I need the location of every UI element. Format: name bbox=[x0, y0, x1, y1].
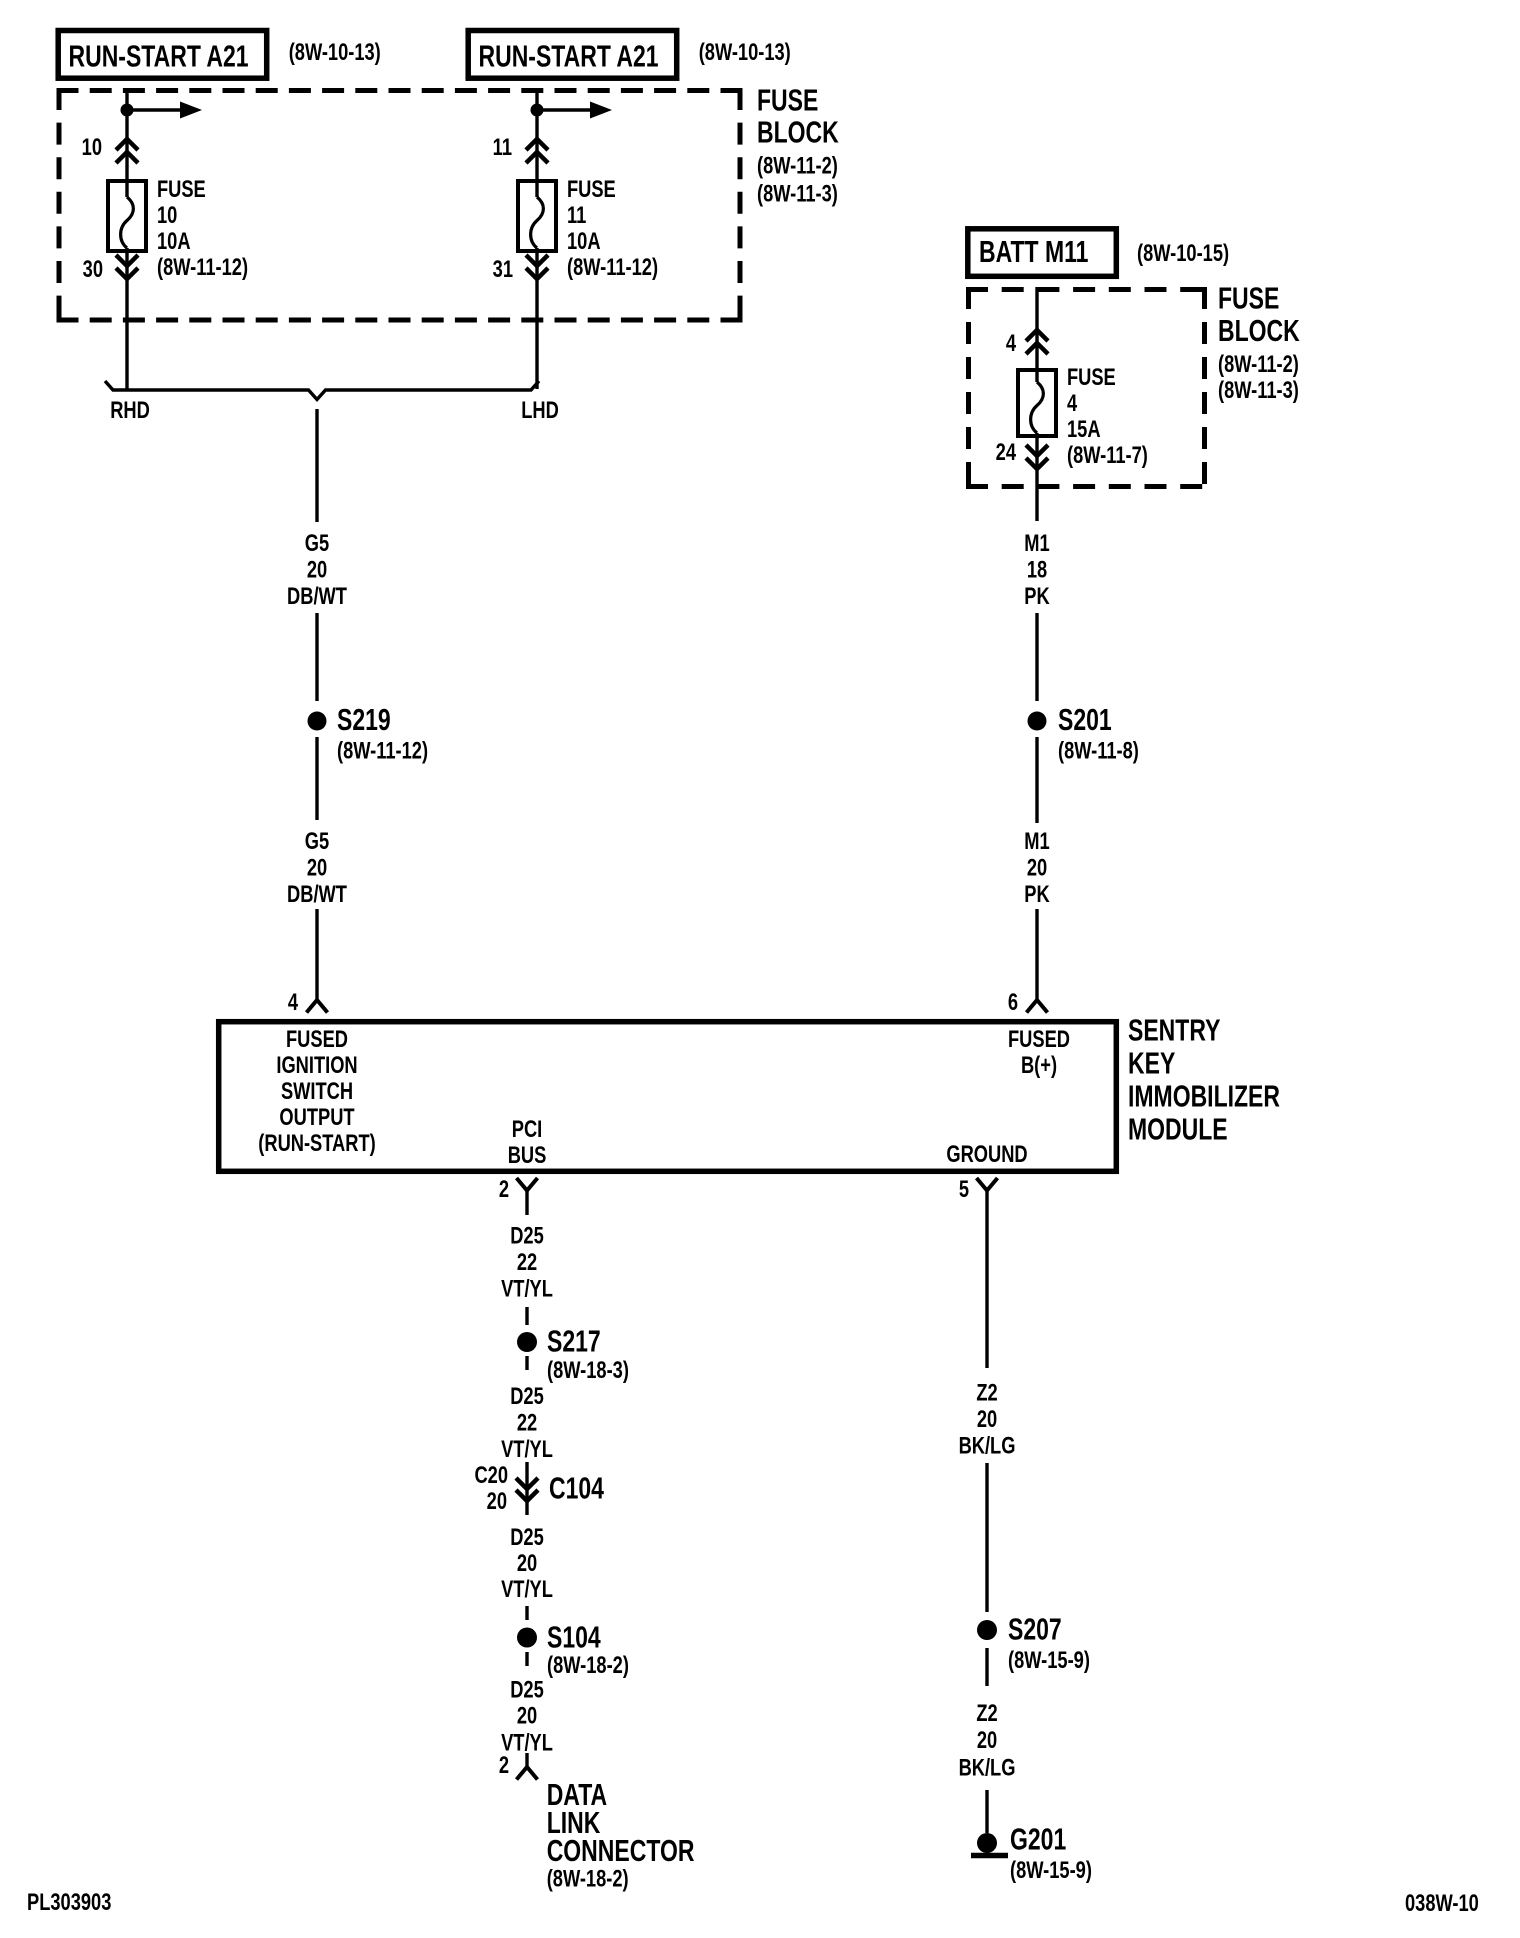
wire G5 below splice S219 bbox=[315, 737, 318, 820]
wire G5 to splice S219 bbox=[315, 613, 318, 701]
svg-text:OUTPUT: OUTPUT bbox=[279, 1104, 354, 1131]
pin 24 connector chevrons bbox=[1026, 445, 1048, 469]
wire fuse 11 output down to brace bbox=[535, 248, 538, 389]
svg-text:(8W-11-12): (8W-11-12) bbox=[157, 254, 248, 281]
svg-text:20: 20 bbox=[487, 1488, 507, 1515]
svg-text:M1: M1 bbox=[1024, 828, 1049, 855]
svg-text:FUSE: FUSE bbox=[757, 84, 818, 118]
wire label D25 20 VT/YL (4) bbox=[501, 1676, 553, 1756]
svg-text:VT/YL: VT/YL bbox=[501, 1275, 553, 1302]
svg-text:S207: S207 bbox=[1008, 1612, 1062, 1646]
connector C104 chevrons bbox=[516, 1462, 538, 1515]
svg-text:(8W-11-8): (8W-11-8) bbox=[1058, 737, 1139, 764]
svg-text:10A: 10A bbox=[567, 228, 601, 255]
svg-text:VT/YL: VT/YL bbox=[501, 1576, 553, 1603]
svg-text:038W-10: 038W-10 bbox=[1405, 1890, 1479, 1917]
label DATA LINK CONNECTOR bbox=[547, 1778, 695, 1868]
wire label Z2 20 BK/LG (2) bbox=[959, 1700, 1016, 1781]
wire from RUN-START A21 left into fuse block bbox=[125, 89, 128, 198]
svg-text:PK: PK bbox=[1024, 583, 1050, 610]
wire D25 to splice S104 bbox=[525, 1606, 528, 1620]
svg-text:30: 30 bbox=[83, 256, 103, 283]
svg-text:B(+): B(+) bbox=[1021, 1052, 1057, 1079]
svg-text:BATT M11: BATT M11 bbox=[979, 235, 1088, 269]
svg-text:BUS: BUS bbox=[508, 1142, 547, 1169]
svg-text:BLOCK: BLOCK bbox=[757, 116, 839, 150]
wire Z2 to ground G201 bbox=[985, 1790, 988, 1833]
wire label D25 20 VT/YL (3) bbox=[501, 1524, 553, 1603]
pin 2 fork out of module bbox=[517, 1178, 538, 1215]
wire label M1 18 PK bbox=[1024, 530, 1050, 610]
value label FUSE 11 10A (8W-11-12) bbox=[567, 176, 658, 281]
wire M1 below splice S201 bbox=[1035, 737, 1038, 823]
value label FUSE 4 15A (8W-11-7) bbox=[1067, 364, 1148, 469]
svg-text:S104: S104 bbox=[547, 1620, 601, 1654]
fuse block dashed enclosure (ignition) bbox=[57, 88, 743, 323]
svg-text:22: 22 bbox=[517, 1249, 537, 1276]
pin 30 connector chevrons bbox=[116, 255, 138, 279]
svg-text:10: 10 bbox=[82, 134, 102, 161]
svg-text:20: 20 bbox=[517, 1550, 537, 1577]
wire D25 below splice S217 bbox=[525, 1356, 528, 1370]
svg-text:S217: S217 bbox=[547, 1324, 601, 1358]
wire Z2 below splice S207 bbox=[985, 1648, 988, 1686]
svg-text:(8W-10-13): (8W-10-13) bbox=[699, 39, 791, 66]
svg-text:BK/LG: BK/LG bbox=[959, 1432, 1016, 1459]
svg-text:(8W-18-2): (8W-18-2) bbox=[547, 1652, 629, 1679]
svg-text:20: 20 bbox=[307, 854, 327, 881]
pin 2 fork into data link connector bbox=[517, 1753, 538, 1780]
label FUSE BLOCK (top) bbox=[757, 84, 839, 150]
connector box BATT M11 bbox=[968, 229, 1117, 276]
svg-text:(8W-15-9): (8W-15-9) bbox=[1008, 1647, 1090, 1674]
svg-text:IGNITION: IGNITION bbox=[276, 1052, 357, 1079]
svg-text:LHD: LHD bbox=[521, 397, 559, 424]
wire label G5 20 DB/WT (lower) bbox=[287, 828, 347, 908]
svg-text:(8W-18-3): (8W-18-3) bbox=[547, 1357, 629, 1384]
svg-text:2: 2 bbox=[499, 1752, 509, 1779]
svg-text:(8W-11-12): (8W-11-12) bbox=[567, 254, 658, 281]
brace joining RHD and LHD feeds bbox=[105, 381, 539, 400]
pin 5 fork out of module bbox=[977, 1178, 998, 1368]
svg-text:SENTRY: SENTRY bbox=[1128, 1013, 1220, 1047]
wire Z2 to splice S207 bbox=[985, 1463, 988, 1612]
svg-text:10A: 10A bbox=[157, 228, 191, 255]
svg-text:DB/WT: DB/WT bbox=[287, 881, 347, 908]
svg-text:(8W-10-15): (8W-10-15) bbox=[1137, 240, 1229, 267]
svg-text:BK/LG: BK/LG bbox=[959, 1754, 1016, 1781]
svg-text:20: 20 bbox=[1027, 854, 1047, 881]
svg-text:11: 11 bbox=[493, 134, 512, 161]
junction dot with arrow (bus bar tap) branch 2 bbox=[531, 102, 613, 119]
svg-text:4: 4 bbox=[1006, 330, 1016, 357]
svg-text:DB/WT: DB/WT bbox=[287, 583, 347, 610]
fuse FUSE 11 10A bbox=[518, 181, 556, 251]
svg-text:FUSE: FUSE bbox=[1218, 281, 1279, 315]
pin 31 connector chevrons bbox=[526, 255, 548, 279]
svg-text:22: 22 bbox=[517, 1409, 537, 1436]
splice S219 bbox=[308, 712, 327, 731]
svg-text:2: 2 bbox=[499, 1176, 509, 1203]
svg-text:D25: D25 bbox=[510, 1222, 544, 1249]
svg-text:VT/YL: VT/YL bbox=[501, 1435, 553, 1462]
pin 4 fork into module bbox=[307, 1000, 328, 1013]
svg-text:FUSED: FUSED bbox=[1008, 1026, 1070, 1053]
svg-text:C104: C104 bbox=[549, 1471, 604, 1505]
junction dot with arrow (bus bar tap) branch 1 bbox=[121, 102, 203, 119]
wire fuse 10 output down to brace bbox=[125, 248, 128, 389]
svg-text:MODULE: MODULE bbox=[1128, 1112, 1228, 1146]
svg-text:(8W-15-9): (8W-15-9) bbox=[1010, 1857, 1092, 1884]
splice S217 bbox=[517, 1332, 537, 1352]
pin name FUSED IGNITION SWITCH OUTPUT (RUN-START) bbox=[258, 1026, 375, 1157]
svg-text:S219: S219 bbox=[337, 703, 391, 737]
svg-text:RHD: RHD bbox=[110, 397, 150, 424]
fuse FUSE 4 15A bbox=[1018, 370, 1056, 436]
svg-text:D25: D25 bbox=[510, 1382, 544, 1409]
svg-text:CONNECTOR: CONNECTOR bbox=[547, 1834, 695, 1868]
svg-text:20: 20 bbox=[977, 1727, 997, 1754]
svg-text:SWITCH: SWITCH bbox=[281, 1078, 353, 1105]
svg-text:Z2: Z2 bbox=[976, 1379, 997, 1406]
svg-text:(8W-18-2): (8W-18-2) bbox=[547, 1865, 629, 1892]
svg-text:10: 10 bbox=[157, 202, 177, 229]
svg-text:11: 11 bbox=[567, 202, 586, 229]
svg-text:20: 20 bbox=[517, 1702, 537, 1729]
svg-text:(8W-11-3): (8W-11-3) bbox=[757, 180, 838, 207]
wire label Z2 20 BK/LG (1) bbox=[959, 1379, 1016, 1459]
label SENTRY KEY IMMOBILIZER MODULE bbox=[1128, 1013, 1280, 1146]
svg-text:D25: D25 bbox=[510, 1676, 544, 1703]
wire BATT M11 into fuse block bbox=[1035, 287, 1038, 382]
wire G5 from brace bbox=[315, 409, 318, 522]
svg-text:RUN-START A21: RUN-START A21 bbox=[479, 39, 659, 73]
svg-text:20: 20 bbox=[977, 1406, 997, 1433]
splice S207 bbox=[977, 1620, 997, 1640]
pin name PCI BUS bbox=[508, 1116, 547, 1169]
svg-text:S201: S201 bbox=[1058, 703, 1112, 737]
svg-text:KEY: KEY bbox=[1128, 1046, 1175, 1080]
wire M1 to module pin 6 bbox=[1035, 909, 1038, 1000]
references (8W-11-2)(8W-11-3) battery bbox=[1218, 351, 1299, 404]
svg-text:RUN-START A21: RUN-START A21 bbox=[69, 39, 249, 73]
wire label M1 20 PK bbox=[1024, 828, 1050, 908]
svg-text:24: 24 bbox=[996, 439, 1016, 466]
label FUSE BLOCK (battery) bbox=[1218, 281, 1300, 347]
svg-text:4: 4 bbox=[288, 989, 298, 1016]
svg-text:(8W-11-7): (8W-11-7) bbox=[1067, 442, 1148, 469]
svg-text:4: 4 bbox=[1067, 390, 1077, 417]
wire label G5 20 DB/WT (upper) bbox=[287, 530, 347, 610]
pin 6 fork into module bbox=[1027, 1000, 1048, 1013]
connector box RUN-START A21 (right feed) bbox=[468, 31, 677, 79]
splice S104 bbox=[517, 1628, 537, 1648]
references (8W-11-2)(8W-11-3) top bbox=[757, 152, 838, 207]
svg-text:G5: G5 bbox=[305, 530, 329, 557]
pin name FUSED B(+) bbox=[1008, 1026, 1070, 1079]
svg-text:Z2: Z2 bbox=[976, 1700, 997, 1727]
wire D25 to splice S217 bbox=[525, 1307, 528, 1325]
svg-text:5: 5 bbox=[959, 1176, 969, 1203]
svg-text:15A: 15A bbox=[1067, 416, 1101, 443]
svg-text:(8W-11-2): (8W-11-2) bbox=[757, 152, 838, 179]
fuse block dashed enclosure (battery) bbox=[966, 287, 1207, 489]
svg-text:(8W-10-13): (8W-10-13) bbox=[289, 39, 381, 66]
svg-text:FUSED: FUSED bbox=[286, 1026, 348, 1053]
svg-text:G201: G201 bbox=[1010, 1822, 1066, 1856]
splice S201 bbox=[1028, 712, 1047, 731]
svg-text:31: 31 bbox=[493, 256, 513, 283]
svg-text:PL303903: PL303903 bbox=[27, 1889, 111, 1916]
svg-text:18: 18 bbox=[1027, 556, 1047, 583]
ground G201 symbol bbox=[971, 1833, 1008, 1856]
svg-text:D25: D25 bbox=[510, 1524, 544, 1551]
svg-text:PK: PK bbox=[1024, 881, 1050, 908]
svg-text:IMMOBILIZER: IMMOBILIZER bbox=[1128, 1079, 1280, 1113]
svg-text:(8W-11-2): (8W-11-2) bbox=[1218, 351, 1299, 378]
wire label D25 22 VT/YL (2) bbox=[501, 1382, 553, 1462]
wire label D25 22 VT/YL (1) bbox=[501, 1222, 553, 1302]
pin 11 connector chevrons bbox=[526, 139, 548, 163]
svg-text:G5: G5 bbox=[305, 828, 329, 855]
pin 10 connector chevrons bbox=[116, 139, 138, 163]
connector box RUN-START A21 (left feed) bbox=[58, 31, 267, 79]
svg-text:(8W-11-12): (8W-11-12) bbox=[337, 737, 428, 764]
wire M1 to splice S201 bbox=[1035, 613, 1038, 701]
svg-text:GROUND: GROUND bbox=[946, 1141, 1027, 1168]
svg-text:FUSE: FUSE bbox=[567, 176, 616, 203]
wire G5 to module pin 4 bbox=[315, 909, 318, 1000]
wire D25 below splice S104 bbox=[525, 1652, 528, 1666]
svg-text:M1: M1 bbox=[1024, 530, 1049, 557]
svg-text:FUSE: FUSE bbox=[1067, 364, 1116, 391]
module box Sentry Key Immobilizer Module bbox=[219, 1022, 1117, 1172]
svg-text:BLOCK: BLOCK bbox=[1218, 314, 1300, 348]
svg-text:FUSE: FUSE bbox=[157, 176, 206, 203]
svg-text:(8W-11-3): (8W-11-3) bbox=[1218, 377, 1299, 404]
svg-text:20: 20 bbox=[307, 556, 327, 583]
pin 4 connector chevrons (battery fuse) bbox=[1026, 330, 1048, 354]
svg-text:PCI: PCI bbox=[512, 1116, 542, 1143]
svg-text:C20: C20 bbox=[474, 1462, 508, 1489]
svg-text:(RUN-START): (RUN-START) bbox=[258, 1130, 375, 1157]
svg-text:6: 6 bbox=[1008, 989, 1018, 1016]
value label FUSE 10 10A (8W-11-12) bbox=[157, 176, 248, 281]
wire fuse 4 output M1 bbox=[1035, 433, 1038, 521]
wire from RUN-START A21 right into fuse block bbox=[535, 89, 538, 198]
fuse FUSE 10 10A bbox=[108, 181, 146, 251]
